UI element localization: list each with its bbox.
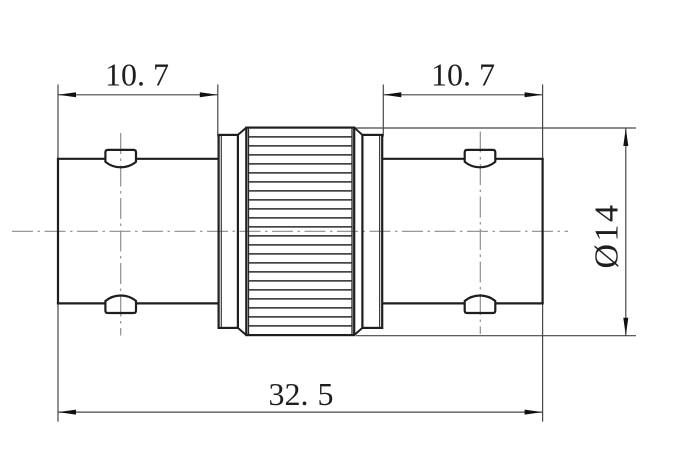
left bottom bayonet pin [105, 295, 136, 313]
dimension line dia14 [623, 128, 628, 336]
left pin centerline [120, 133, 122, 336]
left body outline [57, 159, 219, 304]
right top bayonet pin [465, 150, 496, 167]
left knurl chamfer bottom [238, 328, 246, 335]
horizontal centerline [12, 230, 568, 232]
extension line left (x=58) [57, 85, 59, 422]
extension line left-inner (x=217.8) [217, 85, 219, 137]
knurl body outline [246, 128, 354, 336]
right knurl chamfer top [354, 128, 362, 135]
extension line dia14 bottom [356, 335, 636, 337]
dimension line 10.7 right [383, 92, 542, 97]
knurl stripes [249, 137, 353, 326]
right bottom bayonet pin [465, 295, 496, 313]
dimension line 10.7 left [58, 92, 218, 97]
svg-text:10.7: 10.7 [431, 57, 495, 93]
right pin centerline [479, 132, 481, 335]
svg-text:10.7: 10.7 [105, 57, 169, 93]
extension line right-inner (x=383.3) [382, 85, 384, 137]
extension line right (x=542.6) [542, 85, 544, 422]
dimension line 32.5 bottom [58, 410, 543, 415]
svg-text:32.5: 32.5 [269, 376, 334, 412]
left collar [219, 135, 238, 328]
left top bayonet pin [105, 150, 136, 167]
right body outline [382, 159, 544, 304]
svg-text:Ø14: Ø14 [589, 202, 626, 268]
extension line dia14 top [355, 127, 637, 129]
right collar [362, 135, 382, 328]
right knurl chamfer bottom [354, 328, 362, 335]
left knurl chamfer top [238, 128, 246, 135]
knurl inner face lines [249, 129, 353, 335]
